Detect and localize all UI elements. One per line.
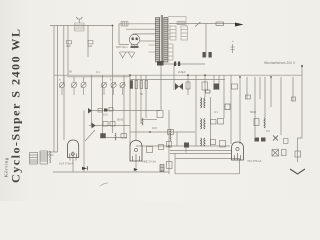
- svg-text:700 375mA: 700 375mA: [247, 159, 261, 163]
- svg-text:100: 100: [103, 113, 108, 117]
- svg-text:2x8µF: 2x8µF: [178, 70, 186, 74]
- svg-text:50: 50: [140, 92, 144, 96]
- svg-text:0,5: 0,5: [266, 129, 270, 133]
- svg-text:Wechselstrom 220 V: Wechselstrom 220 V: [264, 61, 296, 65]
- svg-text:0,1: 0,1: [96, 70, 100, 74]
- svg-text:5000: 5000: [250, 110, 257, 114]
- svg-text:Körting: Körting: [4, 157, 9, 177]
- svg-text:+: +: [232, 40, 234, 44]
- svg-text:4µF: 4µF: [88, 44, 93, 48]
- svg-text:0,1: 0,1: [214, 110, 218, 114]
- svg-text:4µF: 4µF: [66, 44, 71, 48]
- svg-text:5000: 5000: [117, 118, 124, 122]
- svg-text:VBE 2V 6A: VBE 2V 6A: [142, 160, 156, 164]
- svg-text:50: 50: [69, 70, 73, 74]
- svg-text:AL4 375mA: AL4 375mA: [59, 162, 74, 166]
- svg-text:180 Ohm: 180 Ohm: [116, 45, 128, 49]
- svg-text:100: 100: [152, 126, 157, 130]
